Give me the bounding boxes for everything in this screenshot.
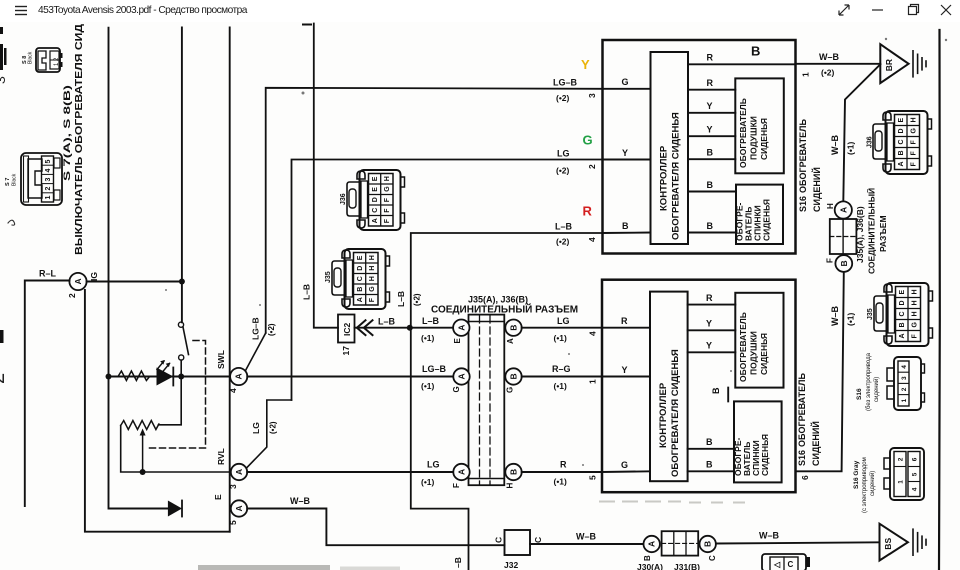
svg-text:RVL: RVL xyxy=(216,448,226,465)
svg-text:B: B xyxy=(509,325,519,331)
stub B to pad heater xyxy=(688,158,735,160)
svg-text:(•1): (•1) xyxy=(554,477,568,487)
ground triangle BS xyxy=(880,524,908,561)
svg-text:A: A xyxy=(372,218,379,223)
black tick top-left edge xyxy=(0,27,3,34)
svg-text:◁: ◁ xyxy=(773,560,781,569)
svg-text:B: B xyxy=(622,221,629,231)
connector icon S7 xyxy=(21,153,62,205)
stub Y2 to pad heater xyxy=(688,135,735,137)
wire row2 right: R-G (+1) to lower box pin 1 xyxy=(522,376,602,378)
svg-text:W–B: W–B xyxy=(290,496,311,506)
IC2 box xyxy=(338,315,355,343)
svg-text:B: B xyxy=(509,373,519,379)
connector icon S16 Gray (with power seat) xyxy=(884,448,924,500)
svg-text:H: H xyxy=(912,300,919,305)
SECTION:UPPERBOX xyxy=(553,30,940,570)
svg-text:F: F xyxy=(369,297,376,302)
svg-text:A: A xyxy=(838,207,848,213)
svg-text:W–B: W–B xyxy=(759,531,780,541)
svg-text:J36: J36 xyxy=(867,136,874,148)
svg-text:A: A xyxy=(647,541,657,547)
SECTION:MID xyxy=(246,24,603,570)
link B between pad and back heaters xyxy=(727,388,729,402)
svg-text:6: 6 xyxy=(800,475,810,480)
wire W-B from J32 to J30/J31 xyxy=(530,543,644,545)
svg-text:3: 3 xyxy=(587,93,597,98)
svg-text:L–B: L–B xyxy=(378,317,396,327)
svg-text:ОБОГРЕВАТЕЛЬ: ОБОГРЕВАТЕЛЬ xyxy=(738,312,748,382)
wire L-B: top vertical to IC2 xyxy=(314,24,338,328)
svg-text:B: B xyxy=(707,221,714,231)
wire: long vertical x=229.7 xyxy=(229,28,231,532)
svg-text:E: E xyxy=(372,176,379,181)
svg-text:ОБОГРЕВАТЕЛЬ: ОБОГРЕВАТЕЛЬ xyxy=(797,373,807,447)
svg-text:(•2): (•2) xyxy=(556,166,570,176)
svg-text:(без электропривода: (без электропривода xyxy=(866,352,872,411)
wire pin4 inside: B xyxy=(603,232,651,235)
svg-text:(•1): (•1) xyxy=(421,381,435,391)
svg-text:H: H xyxy=(384,176,391,181)
ladder row 1: pin circle E/A xyxy=(453,320,469,336)
svg-text:4: 4 xyxy=(45,169,52,173)
svg-text:L–B: L–B xyxy=(302,284,312,300)
wire: switch feed bus x=85 xyxy=(85,290,230,532)
svg-text:2: 2 xyxy=(897,457,904,461)
svg-text:4: 4 xyxy=(911,487,918,491)
wire E row W-B xyxy=(247,509,504,546)
svg-text:LG–B: LG–B xyxy=(553,78,578,88)
svg-text:E: E xyxy=(357,255,364,260)
svg-text:C: C xyxy=(708,555,717,561)
connector pin circle A (pin 2, switch) xyxy=(69,273,86,290)
svg-text:1: 1 xyxy=(897,480,904,484)
wire LG (+2): corner to controller pin 2 xyxy=(292,160,603,401)
svg-text:H: H xyxy=(506,483,515,489)
svg-text:W–B: W–B xyxy=(830,135,840,156)
svg-text:LG–B: LG–B xyxy=(422,364,447,374)
svg-text:4: 4 xyxy=(587,237,597,242)
svg-text:S16 Gray: S16 Gray xyxy=(853,460,860,489)
svg-text:A: A xyxy=(234,505,244,511)
svg-text:СИДЕНЬЯ: СИДЕНЬЯ xyxy=(759,118,769,160)
svg-text:4: 4 xyxy=(901,365,908,369)
heater back box СПИНКИ (lower) xyxy=(734,401,782,482)
svg-text:J35(A), J36(B): J35(A), J36(B) xyxy=(468,295,528,305)
tick at top of L-B wire xyxy=(303,24,311,26)
switch contact bottom xyxy=(179,355,184,360)
svg-text:F: F xyxy=(826,258,835,263)
window controls xyxy=(830,0,960,22)
svg-text:B: B xyxy=(711,387,721,394)
pot left wire down to RVL xyxy=(121,426,231,473)
svg-text:A: A xyxy=(506,338,515,344)
pot right wire to SWL node xyxy=(159,377,182,425)
svg-text:L–B: L–B xyxy=(422,316,440,326)
svg-text:G: G xyxy=(622,77,629,87)
svg-text:(•2): (•2) xyxy=(821,68,835,78)
svg-text:СИДЕНЬЯ: СИДЕНЬЯ xyxy=(759,333,769,375)
svg-text:C: C xyxy=(899,311,906,316)
svg-text:5: 5 xyxy=(911,472,918,476)
svg-text:J32: J32 xyxy=(504,560,518,570)
wire pin5 inside: G xyxy=(602,470,650,473)
junction dot L-B xyxy=(407,325,413,331)
svg-text:ОБОГРЕВАТЕЛЯ СИДЕНЬЯ: ОБОГРЕВАТЕЛЯ СИДЕНЬЯ xyxy=(671,112,682,240)
edge-cut icon S8 at far left xyxy=(0,44,7,70)
svg-text:A: A xyxy=(457,469,467,475)
svg-text:C: C xyxy=(357,276,364,281)
svg-text:G: G xyxy=(384,186,391,192)
svg-text:D: D xyxy=(372,197,379,202)
svg-text:5: 5 xyxy=(45,160,52,164)
wire SWL row xyxy=(109,376,230,378)
SECTION:RIGHT xyxy=(853,111,933,513)
stub Y2 to pad heater (lower) xyxy=(688,351,736,353)
svg-text:B: B xyxy=(751,44,760,59)
svg-text:6: 6 xyxy=(911,457,918,461)
svg-text:5: 5 xyxy=(588,475,598,480)
LED diode xyxy=(157,368,174,386)
svg-text:G: G xyxy=(452,386,461,392)
ground symbol xyxy=(913,51,926,77)
wire pin3 inside: G xyxy=(603,88,651,90)
svg-text:A: A xyxy=(73,278,83,284)
svg-text:A: A xyxy=(899,333,906,338)
schematic right border xyxy=(938,30,941,570)
svg-text:Y: Y xyxy=(622,148,628,158)
seat heater S16 outer box (lower) xyxy=(602,280,796,493)
svg-text:Y: Y xyxy=(706,319,712,329)
svg-text:B: B xyxy=(509,469,519,475)
svg-text:G: G xyxy=(583,133,593,148)
svg-text:(с электроприводом: (с электроприводом xyxy=(862,457,868,513)
dashed mechanical link of switch xyxy=(146,341,206,449)
svg-text:КОНТРОЛЛЕР: КОНТРОЛЛЕР xyxy=(658,382,669,448)
svg-text:СИДЕНЬЯ: СИДЕНЬЯ xyxy=(760,434,770,476)
stub B2 to back heater xyxy=(688,232,736,234)
black mark at left edge xyxy=(0,330,4,343)
wire pin1 inside: Y xyxy=(602,376,650,378)
ladder row 3: pin circle H/B right xyxy=(505,464,521,480)
svg-text:J35: J35 xyxy=(325,271,332,283)
seat heater S16 outer box B (upper) xyxy=(603,40,796,254)
connector icon S16 (without power seat) xyxy=(887,357,925,410)
svg-text:R–G: R–G xyxy=(552,364,571,374)
svg-text:C: C xyxy=(494,537,504,543)
svg-text:R: R xyxy=(706,293,713,303)
svg-text:J35: J35 xyxy=(867,308,874,320)
svg-text:H: H xyxy=(369,276,376,281)
potentiometer body xyxy=(121,421,159,430)
svg-text:R–L: R–L xyxy=(39,269,57,279)
svg-text:1: 1 xyxy=(801,72,811,77)
connector icon J36 (right) xyxy=(873,111,932,174)
connector icon J36 (middle) xyxy=(347,170,405,230)
svg-text:2: 2 xyxy=(67,293,77,298)
svg-text:1: 1 xyxy=(588,379,598,384)
svg-text:ОБОГРЕВАТЕЛЬ: ОБОГРЕВАТЕЛЬ xyxy=(798,119,808,193)
svg-text:C: C xyxy=(898,139,905,144)
svg-text:ПОДУШКИ: ПОДУШКИ xyxy=(749,331,759,375)
svg-text:R: R xyxy=(707,78,714,88)
svg-text:B: B xyxy=(706,437,713,447)
svg-text:BR: BR xyxy=(884,59,894,71)
svg-text:A: A xyxy=(234,373,244,379)
svg-text:A: A xyxy=(898,161,905,166)
junction dot resistor xyxy=(106,374,112,380)
svg-text:E: E xyxy=(372,187,379,192)
wire row1 right: LG (+1) to lower box pin 4 xyxy=(522,327,602,329)
svg-text:R: R xyxy=(707,53,714,63)
controller box (upper) xyxy=(651,52,689,244)
heater pad box ПОДУШКИ (upper) xyxy=(735,78,784,173)
svg-text:F: F xyxy=(452,483,461,488)
svg-text:–B: –B xyxy=(453,557,463,568)
svg-text:ВЫКЛЮЧАТЕЛЬ ОБОГРЕВАТЕЛЯ СИД: ВЫКЛЮЧАТЕЛЬ ОБОГРЕВАТЕЛЯ СИД xyxy=(74,24,85,255)
svg-text:РАЗЪЕМ: РАЗЪЕМ xyxy=(878,215,888,252)
svg-text:IC2: IC2 xyxy=(342,323,352,337)
svg-text:J35(A), J36(B): J35(A), J36(B) xyxy=(855,206,865,263)
svg-text:A: A xyxy=(234,469,244,475)
svg-text:D: D xyxy=(899,300,906,305)
svg-text:Y: Y xyxy=(707,125,713,135)
wire: R-L from left edge xyxy=(25,281,70,507)
pot wiper arrow xyxy=(142,434,144,472)
svg-text:3: 3 xyxy=(45,178,52,182)
relay box J32 xyxy=(505,530,531,555)
svg-text:Black: Black xyxy=(28,51,34,64)
wire LG jog down to RVL pin xyxy=(247,400,292,468)
svg-text:G: G xyxy=(621,460,628,470)
ground triangle BR xyxy=(880,44,908,83)
svg-text:H: H xyxy=(826,203,835,209)
connector icon J35 (middle) xyxy=(332,249,390,309)
svg-text:ОБОГРЕВАТЕЛЬ: ОБОГРЕВАТЕЛЬ xyxy=(738,98,748,168)
ground symbol xyxy=(913,529,926,555)
svg-text:A: A xyxy=(357,297,364,302)
svg-text:B: B xyxy=(703,541,713,547)
svg-text:1: 1 xyxy=(901,398,908,402)
wire row3 left: RVL to F/A xyxy=(247,471,453,473)
svg-text:A: A xyxy=(456,325,466,331)
svg-text:S16: S16 xyxy=(856,388,863,400)
svg-text:W–B: W–B xyxy=(576,532,597,542)
wire pin2 inside: Y xyxy=(603,159,651,161)
diode (to ground side) xyxy=(168,501,182,517)
wire W-B down to lower pin 6 xyxy=(796,272,844,471)
svg-text:LG: LG xyxy=(427,460,440,470)
wire W-B branch diagonal down xyxy=(843,64,880,201)
wire: long vertical x=181.9 xyxy=(181,28,183,323)
svg-text:(•2): (•2) xyxy=(556,237,570,247)
svg-text:G: G xyxy=(369,286,376,292)
pin circle A (H) xyxy=(835,201,852,218)
svg-text:(•2): (•2) xyxy=(267,323,276,336)
svg-text:(•1): (•1) xyxy=(846,312,856,326)
svg-text:E: E xyxy=(213,494,223,500)
svg-text:LG: LG xyxy=(557,316,570,326)
switch blade xyxy=(183,327,189,355)
svg-text:(•2): (•2) xyxy=(413,293,422,306)
stub B2 to back heater (lower) xyxy=(688,470,734,472)
svg-text:S 7(A), S 8(B): S 7(A), S 8(B) xyxy=(62,85,72,181)
svg-text:2: 2 xyxy=(0,373,9,384)
svg-text:LG: LG xyxy=(557,149,570,159)
pin circle B (F) xyxy=(835,255,852,272)
svg-text:(•1): (•1) xyxy=(421,477,435,487)
wire pin4 inside: R xyxy=(602,327,650,329)
svg-text:H: H xyxy=(912,311,919,316)
svg-text:R: R xyxy=(621,316,628,326)
svg-text:G: G xyxy=(506,387,515,393)
joint connector ladder box xyxy=(469,315,505,486)
svg-text:A: A xyxy=(457,373,467,379)
ladder row 2: pin circle G/B right xyxy=(505,368,521,384)
svg-text:ОБОГРЕВАТЕЛЯ СИДЕНЬЯ: ОБОГРЕВАТЕЛЯ СИДЕНЬЯ xyxy=(670,349,681,477)
wire: switch to SWL node xyxy=(180,360,182,376)
wire: IG bus xyxy=(87,281,182,283)
pin circle A (J30) xyxy=(644,536,660,552)
wire: long vertical x=108.5 xyxy=(109,28,168,509)
svg-text:BS: BS xyxy=(883,538,893,550)
svg-text:4: 4 xyxy=(228,388,238,393)
svg-text:E: E xyxy=(899,290,906,295)
svg-text:Y: Y xyxy=(707,101,713,111)
svg-text:SWL: SWL xyxy=(216,350,226,369)
svg-text:1: 1 xyxy=(45,196,52,200)
faint scan dots xyxy=(165,38,947,466)
wire L-B (+2): upper branch to lower controller pin 4 xyxy=(411,233,602,570)
pin circle A (SWL pin 4) xyxy=(230,368,247,385)
stub Y to pad heater (lower) xyxy=(688,329,736,331)
svg-text:F: F xyxy=(384,197,391,202)
svg-text:4: 4 xyxy=(588,331,598,336)
squiggle mark xyxy=(8,220,15,225)
svg-text:H: H xyxy=(912,289,919,294)
svg-text:F: F xyxy=(911,140,918,145)
ladder row 2: pin circle G/A xyxy=(453,368,469,384)
svg-text:3: 3 xyxy=(901,376,908,380)
svg-text:СИДЕНЬЯ: СИДЕНЬЯ xyxy=(762,199,772,241)
svg-text:J31(B): J31(B) xyxy=(674,562,700,570)
ladder row 3: pin circle F/A xyxy=(453,464,469,480)
svg-text:F: F xyxy=(912,334,919,339)
wire L-B to ladder pin E xyxy=(410,327,453,329)
svg-text:F: F xyxy=(384,208,391,213)
svg-text:Y: Y xyxy=(622,365,628,375)
svg-text:W–B: W–B xyxy=(819,52,840,62)
junction dot SWL xyxy=(178,374,184,380)
svg-text:СОЕДИНИТЕЛЬНЫЙ РАЗЪЕМ: СОЕДИНИТЕЛЬНЫЙ РАЗЪЕМ xyxy=(431,303,578,316)
svg-text:G: G xyxy=(911,128,918,134)
svg-text:E: E xyxy=(898,118,905,123)
svg-text:B: B xyxy=(898,150,905,155)
svg-text:C: C xyxy=(533,537,543,543)
svg-text:S16: S16 xyxy=(797,450,807,466)
svg-text:Y: Y xyxy=(581,57,590,72)
stub Y to pad heater xyxy=(688,112,735,114)
svg-text:СОЕДИНИТЕЛЬНЫЙ: СОЕДИНИТЕЛЬНЫЙ xyxy=(866,188,877,274)
junction dot IG xyxy=(179,279,185,285)
svg-text:H: H xyxy=(911,117,918,122)
svg-text:LG: LG xyxy=(251,422,261,434)
svg-text:J30(A): J30(A) xyxy=(637,562,663,570)
svg-text:2: 2 xyxy=(901,387,908,391)
SECTION:LOWERBOX xyxy=(602,280,821,493)
svg-text:B: B xyxy=(643,555,652,561)
wire IC2 output with double chevron xyxy=(355,327,410,329)
svg-text:C: C xyxy=(372,208,379,213)
controller box (lower) xyxy=(650,292,688,482)
svg-text:IG: IG xyxy=(89,272,99,281)
heater pad box ПОДУШКИ (lower) xyxy=(735,293,783,388)
svg-text:2: 2 xyxy=(587,164,597,169)
stub B to back heater (lower) xyxy=(688,448,734,450)
svg-text:LG–B: LG–B xyxy=(251,317,261,340)
svg-text:E: E xyxy=(453,338,462,344)
stub B to back heater xyxy=(688,191,736,193)
svg-text:B: B xyxy=(707,180,714,190)
heater back box СПИНКИ (upper) xyxy=(736,185,783,244)
svg-text:(•2): (•2) xyxy=(269,421,278,434)
faint gray artifact dashes under lower box xyxy=(600,502,755,503)
joint connector block (right) xyxy=(830,219,857,254)
svg-text:(•1): (•1) xyxy=(554,381,568,391)
svg-text:H: H xyxy=(369,266,376,271)
SECTION:LEFT xyxy=(0,24,505,545)
switch contact top xyxy=(178,322,183,327)
svg-text:(•1): (•1) xyxy=(846,141,856,155)
wire W-B to BS ground xyxy=(716,542,880,543)
svg-text:W–B: W–B xyxy=(830,306,840,327)
svg-text:B: B xyxy=(357,287,364,292)
pin circle A (E pin 5) xyxy=(231,500,247,516)
svg-text:Black: Black xyxy=(12,173,18,186)
svg-text:СИДЕНИЙ: СИДЕНИЙ xyxy=(810,421,821,466)
LED arrows xyxy=(157,361,170,372)
svg-text:C: C xyxy=(788,560,794,569)
svg-text:(•2): (•2) xyxy=(556,93,570,103)
svg-text:сидений): сидений) xyxy=(869,471,876,496)
stub R to pad heater xyxy=(688,89,735,91)
grey page-bottom smudge xyxy=(198,565,330,570)
svg-text:S16: S16 xyxy=(798,196,808,212)
stub R to pad heater (lower) xyxy=(688,304,736,306)
wire row3 right: R (+1) to lower box pin 5 xyxy=(522,471,602,473)
wire row2 left: SWL to G/A xyxy=(247,376,453,378)
svg-text:G: G xyxy=(912,322,919,328)
svg-text:R: R xyxy=(583,204,593,219)
stub R out (to BR) xyxy=(688,63,796,65)
svg-text:17: 17 xyxy=(341,346,351,356)
connector icon J35 (right) xyxy=(874,283,933,346)
svg-text:СИДЕНИЙ: СИДЕНИЙ xyxy=(811,167,822,212)
svg-text:3: 3 xyxy=(228,484,238,489)
svg-text:J36: J36 xyxy=(340,193,347,205)
svg-text:сидений): сидений) xyxy=(873,377,880,402)
svg-text:(•1): (•1) xyxy=(554,333,568,343)
svg-text:B: B xyxy=(899,322,906,327)
junction dot wiper xyxy=(140,469,146,475)
svg-text:(•1): (•1) xyxy=(421,333,435,343)
svg-text:5: 5 xyxy=(228,520,238,525)
svg-text:КОНТРОЛЛЕР: КОНТРОЛЛЕР xyxy=(659,145,670,211)
svg-text:Y: Y xyxy=(706,341,712,351)
svg-text:S 7: S 7 xyxy=(5,178,11,186)
svg-text:F: F xyxy=(911,151,918,156)
svg-text:З: З xyxy=(0,76,8,84)
